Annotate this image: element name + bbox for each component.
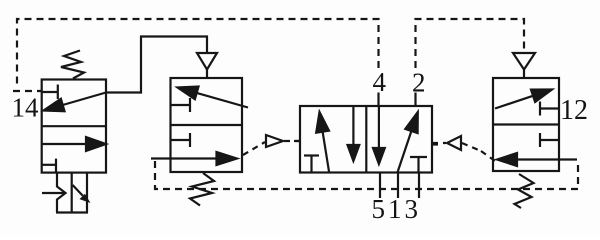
valve V2 top box blocked port T	[171, 98, 191, 112]
valve V2 bottom box flow arrow	[151, 152, 237, 165]
valve V2 bottom box blocked port T	[171, 133, 191, 147]
valve V2 pilot triangle	[197, 53, 217, 78]
svg-text:5: 5	[372, 194, 386, 224]
pilot line: main valve port 4 to valve V1 port 14 (dashed)	[13, 19, 379, 91]
svg-text:12: 12	[560, 95, 588, 126]
valve V1 return spring	[61, 51, 84, 79]
valve V1 body	[42, 80, 106, 173]
main valve left box flow arrow 1-4	[316, 112, 329, 172]
svg-text:4: 4	[373, 67, 387, 97]
valve V2 body	[171, 78, 243, 172]
valve V1 top box flow arrow	[44, 93, 107, 112]
port 5 stub	[379, 173, 381, 199]
valve V3 body	[493, 78, 559, 171]
main valve left box exhaust arrow 2-3	[348, 106, 360, 161]
main valve right box exhaust arrow 4-5	[373, 106, 385, 164]
main valve right box flow arrow 1-2	[398, 112, 418, 172]
svg-text:1: 1	[388, 194, 402, 224]
port 4 stub	[377, 93, 379, 107]
wire: valve V1 output to valve V2 pilot	[106, 37, 207, 93]
valve V2 top box flow arrow	[178, 87, 249, 108]
valve V1 bottom actuator / ports	[42, 173, 88, 213]
main valve left box blocked port 5	[304, 156, 319, 173]
port 2 stub	[414, 93, 416, 107]
valve V3 return spring	[515, 174, 534, 208]
pilot line: main valve port 2 to valve V3 pilot (dashed)	[416, 19, 525, 68]
valve V3 top box blocked port T	[540, 102, 559, 116]
port 3 stub	[418, 173, 420, 199]
valve V3 pilot triangle	[513, 53, 535, 78]
valve V1 bottom box blocked port T	[42, 159, 56, 173]
pilot line: valve V3 output to main valve pilot 12 (dashed with check arrow)	[431, 136, 495, 161]
main valve right box blocked port 3	[410, 157, 427, 172]
pilot supply line (dashed, bottom)	[155, 160, 578, 189]
pilot line: valve V2 output to main valve pilot 14 (dashed with check arrow)	[243, 135, 301, 155]
valve V3 top box flow arrow	[495, 90, 552, 109]
valve V2 return spring	[190, 173, 214, 206]
svg-text:3: 3	[405, 194, 419, 224]
valve V3 bottom box blocked port T	[540, 133, 559, 147]
main valve V4 body	[300, 106, 432, 173]
valve V1 top box blocked port T	[42, 85, 58, 100]
valve V1 bottom box flow arrow	[42, 137, 106, 151]
port 1 stub	[397, 173, 399, 199]
valve V3 bottom box flow arrow	[497, 153, 577, 166]
svg-text:2: 2	[412, 68, 426, 98]
svg-text:14: 14	[12, 93, 40, 123]
